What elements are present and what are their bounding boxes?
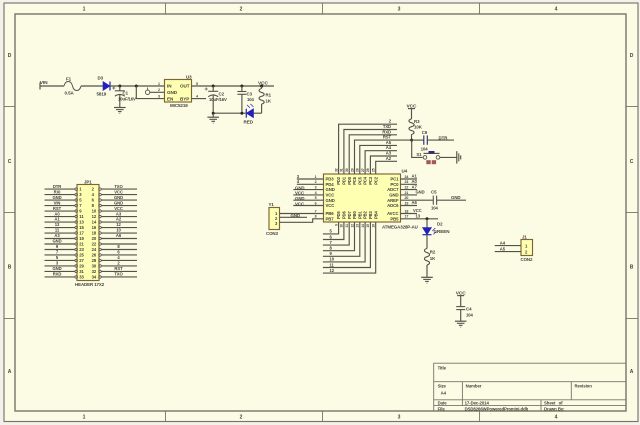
wire U4 net GND row 5 [293, 199, 323, 201]
svg-text:24: 24 [92, 247, 97, 252]
svg-text:A5: A5 [386, 140, 392, 145]
wire U4 top pin 28 net A5 [360, 145, 397, 174]
svg-text:AVCC: AVCC [387, 211, 399, 216]
header JP1 row 1 pins 1/2 [45, 184, 138, 192]
svg-text:22: 22 [405, 186, 409, 190]
capacitor C1 [112, 86, 136, 107]
svg-text:2: 2 [240, 415, 243, 421]
svg-text:11: 11 [79, 214, 84, 219]
svg-text:2: 2 [240, 7, 243, 13]
power port VIN [40, 80, 48, 90]
svg-text:GND: GND [451, 195, 461, 200]
svg-text:PC4: PC4 [363, 176, 368, 185]
svg-text:4: 4 [555, 7, 558, 13]
svg-text:RED: RED [244, 120, 254, 125]
svg-text:21: 21 [79, 242, 84, 247]
capacitor C3 [237, 86, 254, 113]
wire RST down to S1 [412, 140, 423, 157]
wire U4 net VCC row 6 [293, 205, 323, 207]
svg-text:15: 15 [79, 225, 84, 230]
svg-text:14: 14 [92, 220, 97, 225]
wire U4 bottom pin 14 net 10 [323, 222, 365, 262]
svg-text:32: 32 [334, 168, 338, 172]
svg-text:A7: A7 [412, 184, 418, 189]
svg-text:D: D [8, 53, 12, 59]
svg-text:D2: D2 [437, 222, 443, 227]
wire F1 to D3 [81, 85, 103, 87]
svg-text:1K: 1K [266, 99, 272, 104]
svg-text:2: 2 [315, 180, 317, 184]
header JP1 row 17 pins 33/34 [45, 272, 138, 280]
power port VCC (reset) [407, 103, 418, 119]
svg-text:13: 13 [356, 224, 360, 228]
svg-text:ADC6: ADC6 [387, 203, 399, 208]
svg-text:A2: A2 [386, 156, 392, 161]
svg-text:104: 104 [247, 97, 254, 102]
ground wire under C2/C3/D1 [213, 112, 246, 114]
wire U4 top pin 25 net A2 [376, 161, 397, 174]
svg-text:GND: GND [52, 239, 61, 244]
svg-text:DSD8266WPoweredPromini.ddb: DSD8266WPoweredPromini.ddb [465, 406, 529, 411]
svg-text:25: 25 [372, 168, 376, 172]
mcu U4 ATMEGA328P-AU [324, 169, 418, 230]
svg-text:RXI: RXI [54, 189, 61, 194]
wire S1 to earth [440, 156, 457, 158]
svg-text:Sheet of: Sheet of [544, 401, 563, 406]
svg-text:1K: 1K [430, 256, 436, 261]
wire Y1 pin1 to U4 PB6 [280, 213, 324, 215]
svg-text:PB1: PB1 [357, 210, 362, 219]
svg-text:26: 26 [92, 253, 97, 258]
node at C1 [118, 85, 121, 88]
svg-text:17: 17 [405, 215, 409, 219]
svg-text:C4: C4 [466, 307, 472, 312]
svg-text:11: 11 [55, 228, 60, 233]
svg-text:31: 31 [340, 168, 344, 172]
svg-text:20: 20 [92, 236, 97, 241]
svg-text:File: File [438, 406, 446, 411]
svg-text:J1: J1 [522, 235, 527, 240]
svg-text:30: 30 [92, 264, 97, 269]
svg-text:19: 19 [79, 236, 84, 241]
wire U4 PB5 net 13 [401, 218, 439, 220]
header JP1 row 12 pins 23/24 [45, 244, 138, 252]
svg-text:RST: RST [53, 206, 62, 211]
svg-text:6: 6 [315, 201, 317, 205]
wire U4 pin 21 net GND [401, 194, 418, 196]
svg-text:IN: IN [167, 83, 172, 88]
header JP1 row 10 pins 19/20 [45, 233, 138, 241]
svg-text:23: 23 [405, 180, 409, 184]
svg-text:Size: Size [438, 384, 447, 389]
svg-text:21: 21 [405, 191, 409, 195]
svg-text:31: 31 [79, 269, 84, 274]
svg-text:5: 5 [315, 196, 317, 200]
svg-text:4: 4 [196, 94, 198, 98]
svg-text:A3: A3 [54, 233, 60, 238]
title block [434, 363, 626, 411]
wire J1 net A4 [495, 245, 521, 247]
wire U4 bottom pin 10 net 6 [323, 222, 344, 240]
svg-text:0.5A: 0.5A [65, 91, 75, 96]
svg-text:22: 22 [92, 242, 97, 247]
header JP1 HEADER 17X2 [75, 180, 105, 288]
U4 left pin numbers [315, 175, 317, 219]
svg-text:PC3: PC3 [368, 176, 373, 185]
svg-text:18: 18 [405, 209, 409, 213]
wire C6 to DTR [427, 139, 454, 141]
svg-text:27: 27 [79, 258, 84, 263]
svg-text:104: 104 [431, 206, 438, 211]
wire to EN pin [136, 86, 164, 99]
svg-text:23: 23 [79, 247, 84, 252]
resistor R3 [409, 119, 423, 135]
U4 bottom pin numbers [334, 224, 375, 228]
header JP1 row 4 pins 7/8 [45, 200, 138, 208]
svg-text:PC0: PC0 [390, 182, 399, 187]
svg-text:29: 29 [79, 264, 84, 269]
svg-text:PD7: PD7 [347, 210, 352, 219]
header JP1 row 14 pins 27/28 [45, 255, 138, 263]
svg-text:U4: U4 [402, 169, 408, 174]
svg-text:PD1: PD1 [342, 176, 347, 185]
svg-text:32: 32 [92, 269, 97, 274]
svg-text:GND: GND [295, 185, 305, 190]
svg-text:14: 14 [361, 224, 365, 228]
svg-text:VCC: VCC [114, 189, 123, 194]
svg-text:GND: GND [295, 196, 305, 201]
wire U4 pin1 net 3 [297, 178, 324, 180]
header JP1 row 6 pins 11/12 [45, 211, 138, 219]
svg-text:7: 7 [315, 209, 317, 213]
wire D2 to R2 [426, 235, 428, 249]
power port VCC (rail) [258, 80, 269, 87]
svg-text:12: 12 [330, 268, 335, 273]
svg-text:CON3: CON3 [266, 231, 279, 236]
wire U4 net VCC row 4 [293, 194, 323, 196]
svg-text:EN: EN [167, 96, 174, 101]
svg-text:DTR: DTR [439, 136, 449, 141]
svg-text:PB3: PB3 [368, 210, 373, 219]
svg-text:5819: 5819 [97, 92, 107, 97]
fuse F1 [64, 82, 81, 91]
svg-text:1: 1 [83, 7, 86, 13]
U4 right pin numbers [405, 175, 409, 219]
connector J1 CON2 [521, 235, 534, 263]
svg-text:PD5: PD5 [336, 210, 341, 219]
ground under C1 [114, 108, 126, 114]
svg-text:27: 27 [361, 168, 365, 172]
wire C4 to ground [460, 310, 462, 321]
svg-text:A1: A1 [54, 217, 60, 222]
svg-text:24: 24 [405, 175, 409, 179]
svg-text:AREF: AREF [387, 198, 399, 203]
wire U4 pin 22 net A7 [401, 189, 418, 191]
wire Y1 pin3 to U4 PB7 [280, 219, 324, 223]
svg-text:12: 12 [116, 222, 121, 227]
svg-text:F1: F1 [66, 77, 72, 82]
svg-text:PB0: PB0 [352, 210, 357, 219]
svg-text:10: 10 [116, 228, 121, 233]
svg-text:3: 3 [158, 94, 160, 98]
LED D2 [423, 219, 451, 235]
svg-text:1: 1 [158, 82, 160, 86]
svg-text:17-Dec-2014: 17-Dec-2014 [465, 401, 490, 406]
svg-text:GND: GND [389, 193, 398, 198]
wire U4 bottom pin 12 net 8 [323, 222, 355, 251]
svg-text:C5: C5 [431, 190, 437, 195]
svg-text:10: 10 [92, 209, 97, 214]
svg-text:GND: GND [291, 213, 301, 218]
svg-text:C: C [630, 159, 634, 165]
svg-text:VIN: VIN [40, 80, 48, 86]
svg-text:PB5: PB5 [390, 216, 399, 221]
wire U4 bottom pin 13 net 9 [323, 222, 360, 256]
svg-text:28: 28 [92, 258, 97, 263]
svg-text:VCC: VCC [258, 80, 269, 86]
node RST [410, 139, 413, 142]
svg-text:A2: A2 [116, 217, 122, 222]
svg-text:GREEN: GREEN [434, 229, 451, 234]
svg-text:104: 104 [421, 147, 428, 152]
U4 top pin numbers [334, 168, 375, 172]
svg-text:A: A [8, 369, 12, 375]
svg-text:Number: Number [466, 384, 482, 389]
svg-text:VCC: VCC [413, 208, 422, 213]
wire J1 net A5 [495, 251, 521, 253]
wire U4 AREF to C5 [401, 199, 434, 201]
svg-text:5: 5 [196, 82, 198, 86]
resistor R2 [424, 249, 436, 265]
svg-text:4: 4 [555, 415, 558, 421]
svg-text:20: 20 [405, 196, 409, 200]
wire R3 to RST node [411, 135, 413, 141]
svg-text:30: 30 [345, 168, 349, 172]
svg-text:TXD: TXD [383, 124, 391, 129]
wire U4 top pin 31 net TXD [344, 130, 397, 175]
svg-text:A3: A3 [116, 211, 122, 216]
svg-text:GND: GND [52, 266, 61, 271]
wire R2 to ground [426, 265, 428, 277]
svg-text:A4: A4 [386, 145, 392, 150]
LED D1 [244, 104, 262, 125]
switch S1 [416, 151, 439, 164]
ground under C4 [455, 321, 467, 327]
wire U4 pin 23 net A0 [401, 183, 418, 185]
svg-text:A0: A0 [54, 211, 60, 216]
svg-text:Y1: Y1 [269, 202, 275, 207]
header JP1 row 2 pins 3/4 [45, 189, 138, 197]
wire U4 pin 18 net VCC [401, 213, 418, 215]
svg-text:17: 17 [79, 231, 84, 236]
svg-text:U3: U3 [186, 75, 192, 80]
svg-text:3: 3 [398, 7, 401, 13]
wire OUT to VCC rail [192, 85, 275, 87]
svg-text:R1: R1 [266, 93, 272, 98]
wire U4 bottom pin 15 net 11 [323, 222, 371, 268]
svg-text:VCC: VCC [326, 193, 335, 198]
header JP1 row 8 pins 15/16 [45, 222, 138, 230]
svg-text:ADC7: ADC7 [387, 187, 399, 192]
wire U4 pin 24 net A1 [401, 178, 418, 180]
header JP1 row 3 pins 5/6 [45, 195, 138, 203]
U3 pin numbers [158, 82, 198, 99]
svg-text:Date: Date [438, 401, 448, 406]
svg-text:A1: A1 [412, 174, 418, 179]
wire U4 top pin 30 net RXD [349, 135, 397, 174]
svg-text:8: 8 [315, 215, 317, 219]
svg-text:S1: S1 [416, 152, 422, 157]
svg-text:16: 16 [92, 225, 97, 230]
ground under R2 [421, 277, 433, 283]
svg-text:RST: RST [383, 135, 392, 140]
svg-text:GND: GND [326, 187, 335, 192]
svg-text:26: 26 [366, 168, 370, 172]
capacitor C2 [205, 86, 227, 113]
resistor R1 [259, 86, 272, 113]
node at C2 [212, 85, 215, 88]
svg-text:3: 3 [315, 186, 317, 190]
svg-text:C3: C3 [247, 92, 253, 97]
BYP pin stub [192, 98, 207, 100]
wire RST to C6 [412, 139, 424, 141]
svg-text:12: 12 [92, 214, 97, 219]
svg-text:PB6: PB6 [326, 211, 335, 216]
svg-text:Title: Title [438, 365, 447, 370]
wire U4 top pin 27 net A4 [365, 151, 397, 174]
svg-text:DTR: DTR [53, 184, 61, 189]
svg-text:18: 18 [92, 231, 97, 236]
svg-text:RXD: RXD [53, 272, 62, 277]
svg-text:RXD: RXD [382, 129, 391, 134]
wire U4 top pin 32 net 2 [339, 124, 397, 174]
node at C3 [240, 85, 243, 88]
svg-text:MIC5219: MIC5219 [170, 103, 188, 108]
svg-text:1: 1 [83, 415, 86, 421]
header JP1 row 5 pins 9/10 [45, 206, 138, 214]
svg-text:10uF/16V: 10uF/16V [209, 97, 227, 102]
svg-text:A4: A4 [441, 391, 447, 396]
svg-text:D: D [630, 53, 634, 59]
header JP1 row 9 pins 17/18 [45, 228, 138, 236]
svg-text:VIN: VIN [54, 200, 61, 205]
svg-text:GND: GND [326, 198, 335, 203]
svg-text:CON2: CON2 [521, 257, 534, 262]
svg-text:A6: A6 [412, 200, 418, 205]
svg-text:11: 11 [330, 262, 335, 267]
svg-text:PC2: PC2 [373, 176, 378, 185]
svg-text:28: 28 [356, 168, 360, 172]
capacitor C4 [456, 307, 473, 318]
power port VCC (C4) [456, 290, 467, 306]
svg-text:PD2: PD2 [336, 176, 341, 185]
capacitor C5 [431, 190, 466, 211]
svg-text:A: A [630, 369, 634, 375]
svg-text:VCC: VCC [326, 203, 335, 208]
svg-text:C: C [8, 159, 12, 165]
svg-text:25: 25 [79, 253, 84, 258]
svg-text:RST: RST [114, 266, 123, 271]
wire U4 bottom pin 11 net 7 [323, 222, 349, 245]
svg-text:GND: GND [416, 190, 425, 195]
wire VIN to F1 [40, 85, 64, 87]
svg-text:PD6: PD6 [342, 210, 347, 219]
svg-text:GND: GND [114, 195, 123, 200]
svg-text:Revision: Revision [575, 384, 593, 389]
svg-text:BYP: BYP [180, 96, 189, 101]
header JP1 row 7 pins 13/14 [45, 217, 138, 225]
svg-text:Drawn By:: Drawn By: [544, 406, 565, 411]
svg-text:C2: C2 [219, 92, 225, 97]
svg-text:TXO: TXO [114, 272, 123, 277]
svg-text:104: 104 [466, 313, 473, 318]
svg-text:OUT: OUT [180, 83, 190, 88]
svg-text:33: 33 [79, 275, 84, 280]
ground under C2 [207, 113, 219, 123]
svg-text:A5: A5 [500, 246, 506, 251]
wire U4 pin2 net 4 [297, 183, 324, 185]
svg-text:13: 13 [55, 222, 60, 227]
wire U4 net GND row 3 [293, 189, 323, 191]
regulator U3 MIC5219 [165, 75, 193, 109]
svg-text:10: 10 [340, 224, 344, 228]
svg-text:10K: 10K [414, 125, 423, 130]
svg-text:PC6: PC6 [352, 176, 357, 185]
svg-text:1: 1 [315, 175, 317, 179]
wire D3 to U3 input [110, 85, 165, 87]
svg-text:12: 12 [350, 224, 354, 228]
svg-text:GND: GND [114, 200, 123, 205]
svg-text:15: 15 [366, 224, 370, 228]
svg-text:PB4: PB4 [373, 210, 378, 219]
svg-text:10uF/16V: 10uF/16V [118, 97, 136, 102]
header JP1 row 15 pins 29/30 [45, 261, 138, 269]
earth ground (reset) [457, 151, 461, 163]
svg-text:19: 19 [405, 201, 409, 205]
svg-text:13: 13 [79, 220, 84, 225]
svg-text:GND: GND [52, 195, 61, 200]
svg-text:2: 2 [158, 88, 160, 92]
svg-text:A0: A0 [412, 179, 418, 184]
svg-text:9: 9 [334, 224, 338, 226]
svg-text:B: B [630, 265, 634, 271]
node on net 13 [426, 217, 429, 220]
svg-text:PD0: PD0 [347, 176, 352, 185]
resonator Y1 CON3 [266, 202, 280, 236]
svg-text:16: 16 [372, 224, 376, 228]
svg-text:VCC: VCC [295, 201, 305, 206]
svg-text:PD3: PD3 [326, 177, 335, 182]
svg-text:JP1: JP1 [84, 180, 92, 185]
header JP1 row 11 pins 21/22 [45, 239, 138, 247]
svg-text:VCC: VCC [295, 191, 305, 196]
svg-text:A3: A3 [386, 151, 392, 156]
svg-text:3: 3 [398, 415, 401, 421]
svg-text:A6: A6 [116, 233, 122, 238]
svg-text:TXO: TXO [114, 184, 123, 189]
header JP1 row 16 pins 31/32 [45, 266, 138, 274]
svg-text:R3: R3 [414, 119, 420, 124]
svg-text:PC1: PC1 [390, 177, 399, 182]
svg-text:PB2: PB2 [363, 210, 368, 219]
svg-text:D3: D3 [98, 76, 104, 81]
svg-text:B: B [8, 265, 12, 271]
wire U4 top pin 26 net A3 [370, 156, 397, 174]
svg-text:VCC: VCC [114, 206, 123, 211]
node EN branch [135, 85, 138, 88]
svg-text:C1: C1 [123, 91, 129, 96]
svg-text:GND: GND [167, 90, 178, 95]
